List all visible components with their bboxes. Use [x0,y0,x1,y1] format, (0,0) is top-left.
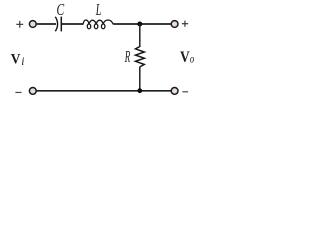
minus sign (input, bottom-left) [15,91,21,93]
wire: resistor bottom stub [139,67,141,91]
svg-text:C: C [57,1,65,20]
svg-text:L: L [95,1,102,19]
terminal circle top-right [171,21,178,28]
wire: top-left terminal to capacitor [37,23,56,25]
plus sign (output, top-right) [182,21,188,27]
wire: inductor to top-right terminal [113,23,170,25]
svg-text:V: V [180,49,190,66]
terminal circle bottom-left [29,88,36,95]
wire: capacitor to inductor [62,23,83,25]
svg-text:o: o [190,53,194,65]
inductor L coil [83,20,113,29]
resistor R zigzag [136,47,145,67]
wire: resistor top stub [139,24,141,47]
capacitor C: straight plate [60,17,62,32]
junction dot bottom [137,88,142,93]
plus sign (input, top-left) [16,21,23,28]
svg-text:V: V [11,51,21,68]
svg-text:i: i [21,56,24,68]
capacitor C: curved plate [55,17,57,32]
svg-text:R: R [124,47,130,66]
junction dot top (node) [137,22,142,27]
minus sign (output, bottom-right) [182,91,188,93]
terminal circle bottom-right [171,88,178,95]
wire: bottom rail [37,90,171,92]
terminal circle top-left [29,21,36,28]
